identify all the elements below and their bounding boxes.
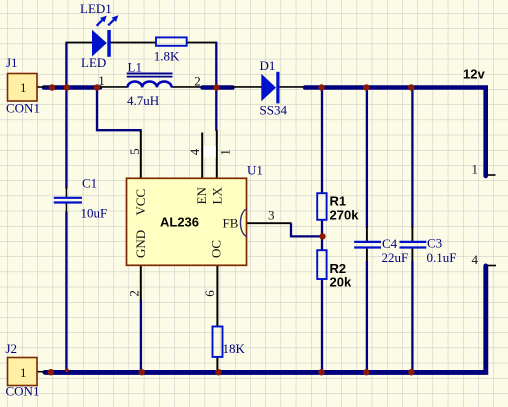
wire: output pin4 black stub	[487, 265, 496, 267]
resistor R2 body	[317, 250, 326, 279]
svg-text:1: 1	[218, 149, 233, 156]
svg-text:AL236: AL236	[160, 215, 199, 230]
LED cathode bar	[107, 30, 111, 57]
wire: C4 to bottom bus	[366, 261, 368, 371]
capacitor C1 plates	[54, 198, 82, 203]
svg-text:R1: R1	[330, 194, 347, 209]
wire: C4 branch from top bus	[366, 89, 368, 228]
svg-text:L1: L1	[128, 60, 142, 75]
svg-text:3: 3	[268, 208, 275, 223]
svg-text:5: 5	[127, 148, 142, 155]
svg-text:D1: D1	[260, 58, 276, 73]
connector J1	[8, 74, 38, 102]
svg-text:1: 1	[20, 80, 27, 95]
wire: thin black bus to L1	[99, 86, 128, 88]
svg-text:4: 4	[187, 148, 202, 155]
svg-text:1: 1	[20, 365, 27, 380]
inductor L1 coils	[128, 81, 172, 87]
svg-text:10uF: 10uF	[81, 206, 108, 221]
svg-text:2: 2	[194, 73, 201, 88]
pin 1 LX black pin	[216, 130, 218, 179]
wire: thin black J1 stub	[37, 86, 46, 88]
wire: VCC elbow from junction 97	[97, 89, 141, 132]
white patch near pin1	[204, 146, 216, 157]
svg-text:C4: C4	[382, 236, 398, 251]
wire: FB node to R2	[321, 236, 323, 251]
pin 3 FB black pin	[247, 222, 292, 224]
junction J1 pin on top bus	[49, 84, 55, 90]
svg-text:OC: OC	[209, 240, 224, 258]
wire: left vertical x66.5 top (LED anode elbow down through bus)	[65, 43, 67, 189]
svg-text:C1: C1	[82, 176, 97, 191]
wire: C3 pins black	[411, 227, 413, 262]
diode D1 cathode bar	[276, 72, 279, 104]
wire: R2 bottom to bottom bus	[321, 279, 323, 371]
svg-text:270k: 270k	[330, 208, 360, 223]
wire: 1.8K to corner black	[187, 42, 217, 44]
junction node FB divider	[319, 233, 325, 239]
pin 6 OC black pin down to 18K	[216, 265, 218, 327]
connector J2	[8, 358, 38, 386]
LED D symbol	[92, 30, 107, 57]
wire: vertical x216.3 from 1.8K corner through bus junction down to LX	[215, 42, 217, 131]
svg-text:1: 1	[472, 162, 479, 177]
wire: R1 bottom to FB node	[321, 220, 323, 238]
junction LED/C1 branch on top bus	[64, 84, 70, 90]
wire: left vertical x66.5 below C1 to bottom bus	[65, 212, 67, 372]
svg-text:LX: LX	[210, 187, 225, 205]
svg-text:6: 6	[202, 290, 217, 297]
wire: top bus thick right with corner down to output pin1	[305, 88, 486, 177]
svg-text:EN: EN	[194, 187, 209, 205]
wire: thin black to D1	[232, 86, 262, 88]
FB arc on IC edge	[240, 209, 246, 236]
wire: J2 black stub	[37, 371, 47, 373]
IC U1 AL236 body	[127, 178, 247, 265]
junction J2 pin on bottom bus	[48, 369, 54, 375]
svg-text:J1: J1	[6, 55, 18, 70]
diode D1	[261, 74, 276, 102]
wire: C1 pin thin black through plates	[65, 187, 67, 213]
junction C3 branch on bottom bus	[408, 369, 414, 375]
svg-text:18K: 18K	[223, 341, 246, 356]
wire: top bus thick J1 to L1	[44, 85, 100, 90]
junction R1 branch on top bus	[318, 84, 324, 90]
junction C1 branch on bottom bus	[65, 368, 69, 372]
wire: LED anode horizontal black	[66, 42, 93, 44]
svg-text:CON1: CON1	[6, 384, 40, 399]
resistor R1 body	[317, 193, 326, 220]
wire: FB elbow navy	[291, 223, 320, 236]
svg-text:FB: FB	[223, 216, 239, 231]
wire: C3 to bottom bus	[411, 261, 413, 371]
junction VCC branch on top bus	[94, 84, 100, 90]
svg-text:C3: C3	[427, 236, 442, 251]
wire: LED cathode to 1.8K black	[111, 42, 157, 44]
junction GND pin on bottom bus	[139, 369, 145, 375]
svg-text:GND: GND	[133, 230, 148, 258]
wire: R1 branch from top bus	[321, 89, 323, 194]
svg-text:1.8K: 1.8K	[154, 49, 180, 64]
junction C4 branch on bottom bus	[363, 369, 369, 375]
junction LX/1.8K branch on top bus	[213, 84, 219, 90]
wire: bottom bus thick with corner up to output pin4	[45, 266, 486, 372]
wire: GND pin to bottom bus navy	[140, 300, 142, 371]
resistor 18K body	[213, 327, 223, 357]
pin 5 VCC black pin	[140, 131, 142, 179]
svg-text:LED: LED	[81, 55, 106, 70]
wire: top bus thick at pin2	[203, 85, 233, 90]
wire: thin black L1 to thick seg	[172, 86, 203, 88]
svg-text:J2: J2	[6, 341, 18, 356]
svg-text:22uF: 22uF	[382, 250, 409, 265]
junction 18K branch on bottom bus	[215, 369, 221, 375]
svg-text:CON1: CON1	[6, 101, 40, 116]
svg-text:20k: 20k	[330, 275, 352, 290]
capacitor C4 plates	[354, 242, 381, 248]
capacitor C3 plates	[400, 242, 427, 248]
svg-text:VCC: VCC	[133, 189, 148, 216]
svg-text:2: 2	[127, 290, 142, 297]
junction C4 branch on top bus	[363, 84, 369, 90]
svg-text:U1: U1	[247, 162, 263, 177]
resistor 1.8K body	[156, 37, 187, 45]
LED1 emission arrow right	[108, 15, 118, 25]
pin 2 GND black pin	[140, 265, 142, 301]
wire: 18K to bottom bus	[216, 357, 218, 372]
wire: output pin1 black stub	[487, 174, 496, 176]
wire: C3 branch from top bus	[411, 89, 413, 228]
svg-text:LED1: LED1	[80, 1, 112, 16]
svg-text:SS34: SS34	[260, 103, 288, 118]
inductor L1 core lines	[127, 72, 173, 74]
LED1 emission arrow left	[97, 16, 107, 26]
svg-text:1: 1	[98, 73, 105, 88]
wire: C4 pins black	[366, 227, 368, 262]
junction R2 branch on bottom bus	[318, 369, 324, 375]
svg-text:4: 4	[472, 252, 479, 267]
wire: thin black D1 to thick bus	[279, 86, 306, 88]
svg-text:12v: 12v	[463, 67, 485, 82]
pin 4 EN black pin (stub)	[201, 133, 203, 179]
junction C3 branch on top bus	[408, 84, 414, 90]
svg-text:0.1uF: 0.1uF	[427, 250, 457, 265]
svg-text:4.7uH: 4.7uH	[127, 93, 159, 108]
